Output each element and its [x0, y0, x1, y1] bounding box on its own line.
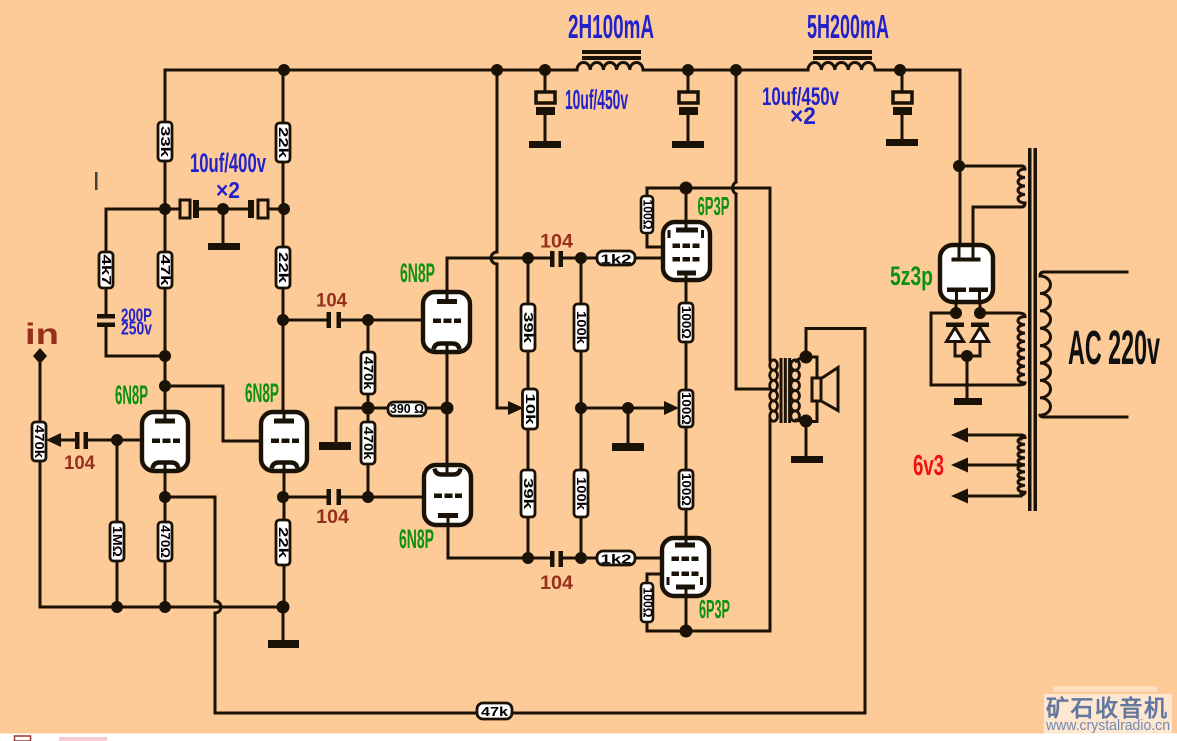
svg-text:5z3p: 5z3p	[890, 261, 933, 291]
wire HV winding bottom loop	[931, 313, 1018, 385]
ground for C1	[529, 141, 561, 148]
node 5z3p plate left / D1	[950, 307, 962, 319]
wire tube3 cathode to tube4 cathode	[446, 352, 449, 465]
wire 100k chain x578	[580, 258, 583, 558]
wire 5z3p filament winding top	[960, 165, 1022, 168]
node B+ rail / filter cap C1	[539, 64, 551, 76]
wire 220v primary ends	[1044, 272, 1127, 417]
node V1 grid / 1M	[111, 434, 123, 446]
svg-text:×2: ×2	[216, 177, 240, 203]
wire input pot column	[40, 362, 283, 607]
capacitor 104 tube3 grid	[327, 312, 342, 328]
svg-text:470k: 470k	[361, 357, 376, 391]
choke 5H200mA	[808, 52, 875, 70]
wire upper 6P3P screen resistor	[647, 188, 686, 247]
node upper 6P3P plate	[680, 182, 693, 195]
node diode anodes	[961, 350, 973, 362]
capacitor filter 10uf/450v C3	[893, 70, 912, 139]
resistor 100ohm cathode 2	[679, 390, 694, 427]
potentiometer 470k input	[32, 422, 47, 461]
node 22k junction / 10uf cap right	[278, 203, 290, 215]
node B+ rail / filter cap C3	[894, 64, 906, 76]
power transformer HV winding	[1018, 313, 1025, 385]
svg-text:100Ω: 100Ω	[679, 306, 694, 339]
node V3 grid / 470k	[362, 314, 374, 326]
wire HV winding top to plate	[980, 312, 1018, 315]
svg-text:104: 104	[316, 507, 349, 528]
node B+ rail / splitter feed	[491, 64, 503, 76]
svg-text:47k: 47k	[158, 255, 173, 287]
wire tube4 grid row	[368, 496, 424, 499]
ground G9 rectifier	[954, 398, 982, 405]
tube 6N8P V2	[261, 412, 307, 471]
svg-text:4k7: 4k7	[99, 255, 114, 286]
wire upper 6P3P plate	[685, 188, 688, 222]
svg-text:22k: 22k	[276, 252, 291, 284]
svg-text:39k: 39k	[521, 312, 536, 344]
wire lower 6P3P cathode to OPT primary bottom	[686, 420, 770, 631]
resistor 100ohm cathode 1	[679, 303, 694, 342]
wire lower 6P3P cathode	[685, 596, 688, 631]
svg-text:22k: 22k	[276, 127, 291, 159]
node V2 cathode / cap 104	[277, 491, 289, 503]
svg-text:AC 220v: AC 220v	[1068, 322, 1160, 375]
capacitor 10uf/400v right	[248, 200, 268, 218]
node OPT secondary top	[800, 351, 813, 364]
svg-text:100Ω: 100Ω	[641, 200, 656, 230]
capacitor 104 bottom middle	[550, 551, 563, 567]
choke 2H100mA	[577, 52, 643, 70]
wire 5z3p filament winding bottom	[973, 207, 1022, 245]
svg-text:6N8P: 6N8P	[399, 524, 434, 554]
wire lower 6P3P screen resistor	[647, 574, 686, 631]
wire hop at feedback over ground rail	[215, 601, 221, 613]
wire diode anodes join	[955, 342, 980, 398]
wire mid ground row y408	[581, 408, 666, 443]
resistor 100k upper	[574, 304, 589, 351]
node 5z3p plate right / D2	[974, 307, 986, 319]
wire cap104 top mid row	[528, 257, 581, 260]
svg-text:104: 104	[64, 453, 95, 474]
node V3-V4 cathodes	[441, 402, 454, 415]
svg-text:104: 104	[540, 232, 573, 253]
node V1 plate	[159, 380, 171, 392]
wire OPT secondary ground stem	[805, 329, 808, 456]
node V3 plate / 39k chain	[522, 252, 534, 264]
wire 470k mid to ground	[336, 408, 368, 443]
wire upper 6P3P plate to OPT primary top	[686, 188, 770, 360]
wire 22k3 column	[283, 497, 284, 607]
svg-text:47k: 47k	[481, 704, 509, 719]
resistor 390 ohm	[388, 401, 426, 416]
wire tube2 plate tap cap104 to 470k node	[283, 319, 368, 322]
wire 5z3p plate stems	[956, 302, 980, 313]
svg-text:10uf/400v: 10uf/400v	[190, 148, 266, 178]
svg-text:6P3P: 6P3P	[698, 191, 730, 221]
wire 470k chain x368	[367, 320, 370, 497]
arrow wiper 10k	[508, 401, 524, 415]
wire B+ middle drop x497	[497, 70, 508, 408]
resistor 100ohm screen lower	[641, 583, 656, 622]
node V4 grid / 470k bottom	[362, 491, 374, 503]
svg-text:1MΩ: 1MΩ	[110, 526, 125, 557]
node B+ rail / 22k	[278, 64, 290, 76]
resistor 470 ohm	[158, 522, 173, 561]
wire 6P3P cathode 100ohm chain x686	[685, 280, 688, 538]
svg-text:104: 104	[316, 291, 347, 312]
ground G8 OPT secondary	[791, 456, 823, 463]
wire OPT secondary top to feedback	[796, 357, 817, 378]
wire cap104 bottom mid row	[528, 557, 581, 560]
tube 6N8P V3	[423, 292, 470, 352]
wire 33k-47k column x165	[164, 70, 167, 413]
svg-text:×2: ×2	[790, 103, 816, 130]
output transformer core	[780, 358, 792, 423]
speaker	[812, 368, 838, 411]
svg-text:22k: 22k	[276, 527, 291, 559]
node 5z3p filament / B+	[953, 160, 965, 172]
wire 4k7 200P branch	[106, 209, 165, 356]
wire 1k2 to lower 6P3P grid	[581, 557, 662, 560]
output transformer primary coil	[770, 360, 778, 421]
svg-text:1k2: 1k2	[601, 552, 632, 567]
svg-text:www.crystalradio.cn: www.crystalradio.cn	[1045, 717, 1170, 734]
potentiometer 10k	[523, 389, 539, 429]
resistor 22k lower	[276, 520, 291, 565]
svg-text:6v3: 6v3	[913, 450, 944, 482]
svg-text:10uf/450v: 10uf/450v	[565, 84, 628, 115]
resistor 39k upper	[521, 304, 536, 351]
svg-text:5H200mA: 5H200mA	[807, 8, 889, 45]
node 100k / 1k2 upper	[575, 252, 587, 264]
svg-text:1k2: 1k2	[601, 252, 632, 267]
wire tube3 grid	[368, 319, 423, 322]
output transformer secondary coil	[791, 360, 800, 421]
power transformer 6v3 winding	[1018, 435, 1025, 496]
power transformer 220v primary winding	[1040, 272, 1051, 417]
svg-text:6N8P: 6N8P	[245, 378, 279, 408]
resistor 4k7	[99, 252, 114, 288]
node V1 cathode / feedback	[159, 491, 171, 503]
wire 6v3 arrows lines	[958, 435, 1021, 496]
wire feedback from tube1 cathode	[165, 329, 865, 714]
stray tick mark	[95, 172, 98, 190]
power transformer filament winding	[1018, 166, 1025, 207]
tube 6N8P V4 mirrored	[424, 465, 471, 525]
svg-text:in: in	[25, 318, 59, 351]
tube 5z3p rectifier	[940, 245, 993, 302]
svg-text:390 Ω: 390 Ω	[390, 401, 424, 416]
resistor 100k lower	[574, 470, 589, 517]
capacitor filter 10uf/450v C2	[679, 70, 698, 141]
svg-text:100k: 100k	[574, 477, 589, 511]
svg-text:6P3P: 6P3P	[699, 594, 730, 624]
node 47k / 200P branch	[159, 350, 171, 362]
ground G5 main	[268, 640, 299, 648]
node 100k mid	[575, 402, 587, 414]
diode D2	[971, 323, 989, 342]
resistor 22k upper	[276, 123, 291, 162]
node V2 plate / cap 104	[277, 314, 289, 326]
capacitor 104 tube4 grid	[327, 489, 342, 505]
wire OPT secondary bottom	[796, 401, 817, 422]
capacitor filter 10uf/450v C1	[536, 70, 555, 141]
svg-text:470k: 470k	[32, 425, 47, 459]
resistor 470k lower	[361, 422, 376, 464]
node 33k-47k / 10uf cap left	[159, 203, 171, 215]
resistor 39k lower	[521, 470, 536, 517]
wire B+ rail right drop to 5z3p filament	[959, 70, 962, 258]
resistor 33k	[158, 122, 173, 161]
node 10uf caps center ground	[217, 203, 229, 215]
resistor 100ohm screen upper	[641, 196, 656, 233]
input terminal diamond	[33, 348, 47, 364]
arrow 6v3 bottom	[951, 489, 968, 504]
svg-text:100Ω: 100Ω	[679, 392, 694, 425]
svg-text:104: 104	[540, 573, 573, 594]
svg-text:100Ω: 100Ω	[641, 588, 656, 618]
svg-text:6N8P: 6N8P	[115, 380, 148, 410]
node B+ rail / OPT center tap feed	[730, 64, 742, 76]
ground between 10uf/400v caps	[208, 243, 240, 250]
wire tube1 cathode and 470ohm	[164, 471, 167, 607]
svg-text:10k: 10k	[523, 394, 538, 426]
wire tube3 plate row y258	[447, 258, 528, 292]
bottom white strip	[0, 734, 1177, 741]
node ground rail / 22k	[277, 601, 290, 614]
node V4 plate / 39k chain	[522, 552, 534, 564]
resistor 22k middle	[276, 247, 291, 288]
diode D1	[946, 323, 964, 342]
ground G7 splitter mid	[612, 443, 644, 451]
wire tube4 plate row y558	[448, 525, 528, 558]
capacitor 104 input	[75, 432, 88, 449]
arrow 6v3 top	[951, 428, 968, 443]
resistor 1M	[110, 522, 125, 561]
capacitor 10uf/400v left	[180, 200, 199, 218]
node B+ rail / filter cap C2	[682, 64, 694, 76]
wire hop at B+ right over plate row	[733, 182, 736, 194]
ground for C2	[672, 141, 704, 148]
tube 6P3P lower	[662, 538, 709, 596]
svg-text:33k: 33k	[158, 126, 173, 158]
tube 6P3P upper	[663, 222, 710, 280]
tube 6N8P V1	[142, 412, 188, 471]
arrow into 100ohm 2	[664, 401, 679, 415]
resistor 1k2 upper	[597, 251, 635, 267]
wire ground G5 stem	[282, 607, 285, 640]
ground for C3	[886, 139, 918, 146]
wire 1M column	[116, 440, 119, 607]
wire 39k 10k chain x528	[527, 258, 530, 558]
resistor 1k2 lower	[597, 551, 635, 567]
resistor 47k	[158, 252, 173, 288]
svg-text:100Ω: 100Ω	[679, 473, 694, 506]
node splitter mid ground	[622, 402, 634, 414]
wire 10uf400 caps row	[165, 209, 283, 243]
svg-text:470k: 470k	[361, 427, 376, 461]
wire 22k column x283	[282, 70, 285, 413]
resistor 470k upper	[361, 352, 376, 394]
resistor 47k feedback	[477, 703, 512, 719]
power transformer core	[1028, 148, 1037, 511]
node OPT secondary bottom	[800, 415, 813, 428]
wire top B+ rail	[165, 70, 960, 209]
wire input wiper cap to grid	[60, 439, 142, 442]
wire B+ center tap x736	[736, 70, 770, 389]
arrow wiper input pot	[46, 433, 61, 447]
svg-text:6N8P: 6N8P	[400, 258, 435, 288]
node ground rail / 470 ohm	[159, 601, 171, 613]
wire tube2 cathode cap104	[284, 471, 368, 497]
node 100k / 1k2 lower	[575, 552, 587, 564]
wire hop at B+ mid over plate row	[491, 252, 497, 264]
wire 390ohm row	[368, 407, 447, 410]
svg-text:470Ω: 470Ω	[158, 525, 173, 558]
watermark	[1044, 686, 1172, 734]
resistor 100ohm cathode 3	[679, 470, 694, 509]
wire tube1 plate to tube2 grid	[165, 386, 261, 441]
svg-text:100k: 100k	[574, 311, 589, 345]
svg-text:2H100mA: 2H100mA	[568, 8, 654, 45]
capacitor 200P	[97, 314, 115, 327]
ground G6 splitter grid	[319, 442, 351, 450]
svg-text:250v: 250v	[121, 319, 152, 339]
node 470k mid / 390 ohm	[362, 402, 375, 415]
svg-text:39k: 39k	[521, 478, 536, 510]
node ground rail / 1M	[111, 601, 123, 613]
capacitor 104 top middle	[550, 251, 563, 267]
node lower 6P3P cathode	[680, 625, 693, 638]
arrow 6v3 middle	[951, 458, 968, 473]
wire 1k2 to upper 6P3P grid	[581, 257, 663, 260]
